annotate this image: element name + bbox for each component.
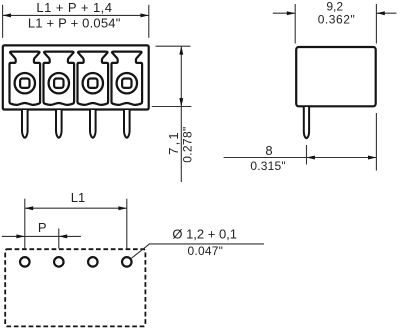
dimension L1+P+1,4 : dimension line bbox=[3, 14, 149, 16]
PCB footprint: dashed board outline bbox=[5, 249, 145, 326]
dimension 9,2 : right arrowhead (pointing left) bbox=[376, 11, 384, 15]
svg-text:0.047": 0.047" bbox=[188, 244, 224, 258]
front view cavity 1 contact circle bbox=[15, 73, 35, 93]
dimension 9,2 : right dimension line segment bbox=[376, 12, 396, 14]
dimension 8 : right extension line bbox=[375, 113, 377, 171]
dimension L1+P+1,4 : left arrowhead bbox=[3, 13, 11, 17]
dimension L1 : left arrowhead bbox=[25, 206, 33, 210]
dimension 7,1 : vertical dimension line bbox=[180, 46, 182, 182]
front view cavity 3 outline bbox=[78, 52, 109, 105]
front view cavity 1 square contact opening bbox=[20, 79, 29, 88]
dimension 7,1 : top arrowhead bbox=[179, 46, 183, 54]
dimension L1+P+1,4 : left extension line bbox=[2, 5, 4, 38]
svg-text:0.278": 0.278" bbox=[181, 126, 195, 162]
dimension L1 : dimension line bbox=[25, 207, 127, 209]
dimension 9,2 : left dimension line segment bbox=[273, 12, 295, 14]
dimension L1 : right extension line bbox=[126, 199, 128, 249]
front view solder pin 4 bbox=[124, 110, 130, 138]
front view cavity 4 outline bbox=[112, 52, 143, 105]
dimension 9,2 : right extension line bbox=[375, 4, 377, 44]
svg-text:8: 8 bbox=[265, 143, 272, 158]
front view cavity 2 contact circle bbox=[49, 73, 69, 93]
front view cavity 4 square contact opening bbox=[122, 79, 131, 88]
dimension L1+P+1,4 : right arrowhead bbox=[140, 13, 148, 17]
footprint drill hole 1 bbox=[20, 257, 30, 267]
dimension 8 : dimension line bbox=[224, 157, 377, 159]
footprint drill hole 2 bbox=[54, 257, 64, 267]
dimension L1+P+1,4 : right extension line bbox=[148, 5, 150, 38]
svg-text:L1 + P + 1,4: L1 + P + 1,4 bbox=[36, 0, 112, 15]
front view solder pin 3 bbox=[90, 110, 96, 138]
drill diameter leader line bbox=[132, 244, 264, 258]
svg-text:P: P bbox=[38, 220, 47, 235]
connector front view: body outline bbox=[3, 45, 149, 109]
side view solder pin bbox=[304, 107, 309, 138]
dimension P : dimension line bbox=[2, 235, 81, 237]
dimension 8 : left arrowhead (pointing left) bbox=[307, 156, 315, 160]
front view cavity 3 contact circle bbox=[83, 73, 103, 93]
dimension 7,1 : bottom arrowhead bbox=[179, 98, 183, 106]
front view cavity 3 square contact opening bbox=[88, 79, 97, 88]
svg-text:7,1: 7,1 bbox=[166, 130, 181, 155]
front view cavity 4 contact circle bbox=[117, 73, 137, 93]
front view cavity 1 outline bbox=[10, 52, 41, 105]
svg-text:0.362": 0.362" bbox=[318, 12, 356, 26]
dimension 7,1 : top extension tick bbox=[156, 45, 191, 47]
dimension 8 : right arrowhead (pointing right) bbox=[368, 156, 376, 160]
footprint drill hole 3 bbox=[88, 257, 98, 267]
dimension P : right arrowhead (outside, pointing left) bbox=[59, 234, 67, 238]
front view solder pin 1 bbox=[22, 110, 28, 138]
dimension P : left arrowhead (outside, pointing right) bbox=[16, 234, 24, 238]
svg-text:L1: L1 bbox=[71, 190, 85, 205]
dimension 8 : pin-centre extension line bbox=[306, 145, 308, 165]
svg-text:Ø 1,2 + 0,1: Ø 1,2 + 0,1 bbox=[172, 227, 237, 242]
svg-text:0.315": 0.315" bbox=[250, 159, 286, 173]
front view solder pin 2 bbox=[56, 110, 62, 138]
dimension L1 : right arrowhead bbox=[118, 206, 126, 210]
footprint drill hole 4 bbox=[122, 257, 132, 267]
connector side view: body outline bbox=[296, 47, 376, 106]
dimension 7,1 : bottom extension tick bbox=[152, 106, 192, 108]
front view cavity 2 square contact opening bbox=[54, 79, 63, 88]
front view cavity 2 outline bbox=[44, 52, 75, 105]
dimension 9,2 : left extension line bbox=[294, 4, 296, 44]
dimension P : right extension line bbox=[58, 229, 60, 249]
svg-text:L1 + P + 0.054": L1 + P + 0.054" bbox=[28, 16, 121, 31]
dimension L1 : left extension line bbox=[24, 199, 26, 249]
dimension 9,2 : left arrowhead (pointing right) bbox=[287, 11, 295, 15]
